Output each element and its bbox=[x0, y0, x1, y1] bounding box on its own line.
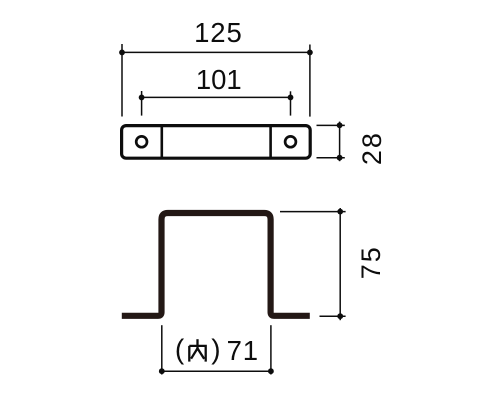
dimension 71 extension line right bbox=[270, 325, 272, 374]
dimension 71 dot left bbox=[159, 368, 165, 374]
dimension 101 extension line right bbox=[290, 91, 292, 115]
dimension 28 witness line bottom bbox=[317, 157, 345, 159]
dimension 125 dot left bbox=[119, 50, 125, 56]
dimension 28 line bbox=[339, 122, 341, 162]
dimension 28 witness line top bbox=[317, 124, 345, 126]
dimension 75 witness line top bbox=[280, 211, 346, 213]
dimension 101 line bbox=[142, 96, 291, 98]
dimension 101 dot left bbox=[139, 95, 145, 101]
dimension 71 dot right bbox=[268, 368, 274, 374]
dimension 28 dot bottom bbox=[337, 155, 343, 161]
dimension 125 line bbox=[122, 51, 310, 53]
bend line left bbox=[161, 126, 164, 158]
dimension 75 witness line bottom bbox=[320, 315, 346, 317]
dimension 71 extension line left bbox=[161, 325, 163, 374]
hole right bbox=[285, 136, 296, 147]
top view body (plate outline) bbox=[122, 126, 311, 159]
svg-text:71: 71 bbox=[227, 335, 259, 366]
dimension 71 line bbox=[162, 370, 271, 372]
hole left bbox=[136, 136, 147, 147]
svg-text:28: 28 bbox=[357, 131, 387, 165]
svg-text:): ) bbox=[211, 334, 220, 365]
dimension 101 dot right bbox=[288, 95, 294, 101]
dimension 125 extension line left bbox=[121, 44, 123, 117]
dimension 125 extension line right bbox=[309, 45, 311, 117]
dimension 28 dot top bbox=[337, 122, 343, 128]
svg-text:101: 101 bbox=[196, 64, 242, 95]
dimension 125 dot right bbox=[307, 50, 313, 56]
bend line right bbox=[269, 126, 272, 158]
svg-text:125: 125 bbox=[194, 17, 243, 48]
dimension 75 dot top bbox=[337, 209, 343, 215]
dimension 75 dot bottom bbox=[337, 313, 343, 319]
dimension 101 extension line left bbox=[141, 91, 143, 116]
hat channel profile bbox=[122, 213, 310, 316]
svg-text:(: ( bbox=[175, 334, 185, 365]
svg-text:75: 75 bbox=[356, 245, 386, 279]
dimension 75 line bbox=[339, 208, 341, 320]
kanji uchi (inner) drawn glyph bbox=[189, 339, 205, 361]
